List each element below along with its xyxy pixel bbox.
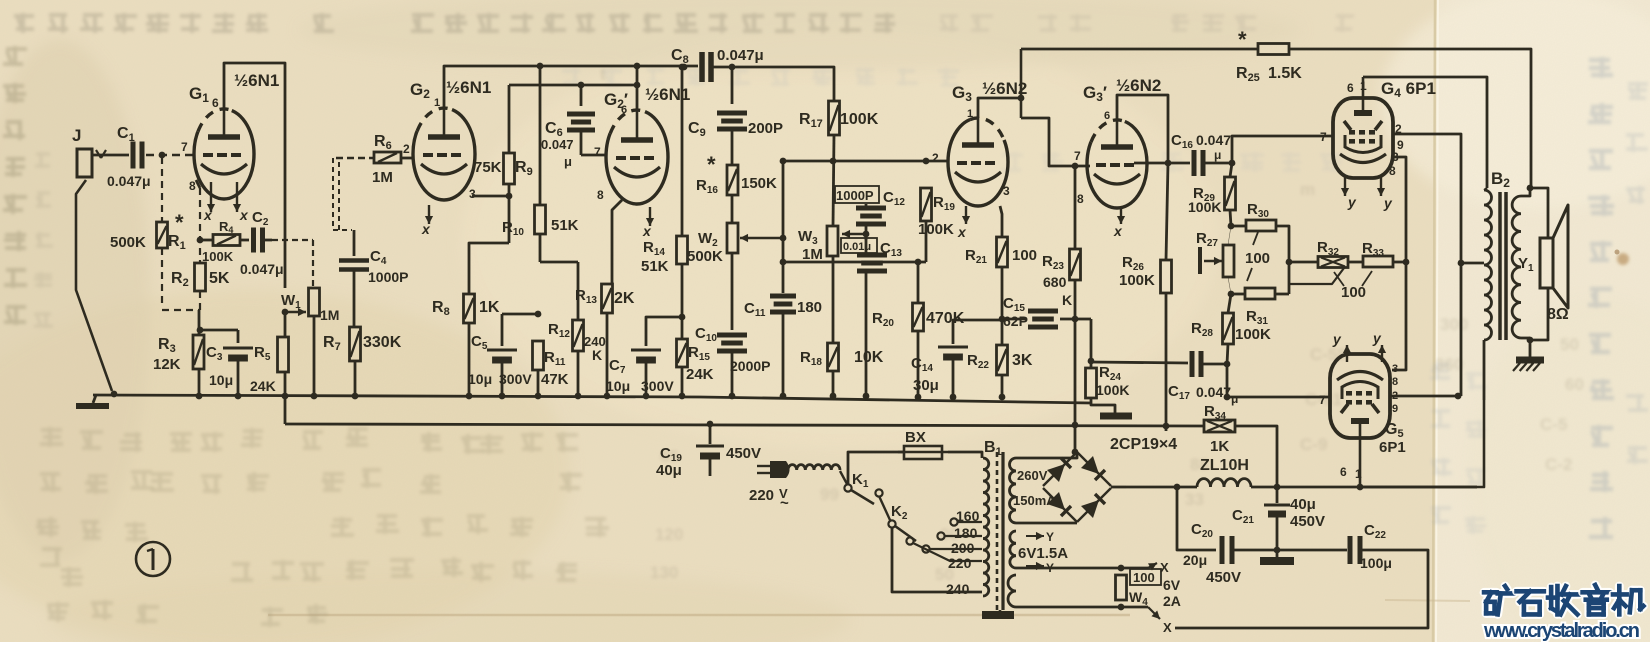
svg-text:1M: 1M: [802, 246, 823, 263]
svg-text:9: 9: [1392, 403, 1398, 415]
svg-text:μ: μ: [1214, 148, 1221, 162]
dashed shielded pair down from R6: [332, 158, 334, 230]
svg-text:100K: 100K: [1188, 199, 1221, 215]
svg-text:240: 240: [946, 581, 970, 597]
svg-text:180: 180: [797, 299, 822, 316]
R32 wiper: [1289, 268, 1344, 284]
transformer B1 primary winding: [983, 458, 989, 596]
wire B+ bus: [285, 424, 1204, 426]
resistor R22: [997, 345, 1008, 375]
heater lead G3p: [1120, 206, 1122, 224]
wire G1 cathode to R2 column (dashed shield): [196, 180, 200, 188]
svg-text:1: 1: [1360, 79, 1367, 93]
wire G2 plate to rail A: [444, 66, 698, 108]
svg-text:450V: 450V: [726, 445, 761, 462]
wire W1 body down to ground bus: [313, 316, 316, 395]
wire R9 column to R8: [469, 243, 509, 294]
svg-text:100: 100: [1012, 247, 1037, 264]
heater lead G2: [428, 205, 430, 224]
svg-text:8: 8: [1392, 376, 1398, 388]
wire G4 cathode column: [1392, 157, 1406, 370]
speaker Y1: [1540, 238, 1553, 288]
svg-text:330K: 330K: [363, 334, 402, 351]
potentiometer R27: [1223, 245, 1234, 277]
resistor R15: [677, 339, 688, 367]
svg-text:6P1: 6P1: [1379, 439, 1406, 456]
svg-text:7: 7: [1320, 130, 1327, 144]
wire jack ground drop: [76, 180, 112, 391]
svg-text:*: *: [1238, 27, 1247, 52]
wire G1 plate to B+ column: [224, 63, 285, 288]
svg-text:x: x: [203, 207, 213, 223]
tube G2p triode: [606, 110, 668, 204]
svg-text:0.047μ: 0.047μ: [717, 47, 764, 64]
svg-text:100: 100: [1133, 570, 1155, 585]
svg-text:62P: 62P: [1003, 313, 1028, 329]
transformer B2 primary winding: [1484, 190, 1492, 340]
svg-text:y: y: [1372, 330, 1382, 346]
svg-text:160: 160: [956, 508, 980, 524]
svg-text:10μ: 10μ: [468, 371, 492, 387]
resistor R25: [1258, 44, 1289, 55]
svg-text:6: 6: [212, 96, 219, 110]
svg-text:130: 130: [650, 563, 678, 582]
svg-text:G4 6P1: G4 6P1: [1381, 79, 1436, 100]
svg-text:150K: 150K: [741, 175, 777, 192]
capacitor C21: [1276, 487, 1279, 503]
wire rail A right of C8: [711, 67, 834, 101]
resistor R19: [921, 188, 932, 221]
resistor R14 on C8-left column: [679, 64, 686, 71]
resistor R30: [1231, 225, 1246, 228]
svg-text:www.crystalradio.cn: www.crystalradio.cn: [1483, 620, 1640, 642]
resistor R32: [1289, 261, 1318, 264]
svg-text:1K: 1K: [1210, 438, 1229, 455]
svg-text:680: 680: [1043, 274, 1067, 290]
svg-text:8: 8: [1389, 164, 1396, 178]
wiper feed column x783: [780, 158, 787, 165]
svg-text:x: x: [421, 221, 431, 237]
switch K2: [879, 496, 890, 520]
choke ZL10H: [1126, 486, 1197, 489]
capacitor C12: [865, 204, 868, 208]
svg-text:120: 120: [655, 525, 683, 544]
diode D1: [1047, 464, 1065, 482]
svg-text:BX: BX: [905, 429, 926, 446]
heater leads G1: [210, 182, 212, 212]
resistor R18: [828, 343, 839, 371]
tube G4 pentode: [1333, 98, 1393, 178]
capacitor C1: [131, 142, 136, 169]
svg-text:1000P: 1000P: [836, 188, 874, 203]
svg-text:24K: 24K: [686, 366, 714, 383]
svg-text:6: 6: [1104, 110, 1110, 122]
svg-text:½6N1: ½6N1: [234, 71, 279, 90]
resistor R6: [336, 157, 374, 159]
svg-text:1K: 1K: [479, 299, 500, 316]
svg-text:33: 33: [1185, 490, 1204, 509]
svg-text:100K: 100K: [202, 249, 234, 264]
tube G3p triode: [1087, 120, 1147, 208]
svg-text:7: 7: [594, 145, 601, 159]
input jack J: [77, 149, 92, 177]
svg-text:3: 3: [1003, 184, 1010, 198]
svg-text:24K: 24K: [250, 378, 276, 394]
wire G2p plate riser: [636, 85, 639, 110]
svg-text:100K: 100K: [1119, 272, 1155, 289]
svg-text:300V: 300V: [641, 378, 674, 394]
svg-text:0.047: 0.047: [541, 137, 574, 152]
wire G3 cathode column: [1000, 206, 1002, 237]
svg-text:x: x: [239, 207, 249, 223]
paper noise: [0, 0, 1, 1]
svg-text:~: ~: [780, 495, 789, 512]
capacitor C16: [1134, 162, 1190, 165]
svg-text:300: 300: [1440, 315, 1468, 334]
transformer B2 core: [1498, 192, 1502, 340]
wire B+ bus right of R34: [1235, 426, 1277, 487]
svg-text:2: 2: [932, 151, 939, 165]
svg-text:500K: 500K: [687, 248, 723, 265]
hum pot W4: [1118, 565, 1125, 572]
diode D2: [1081, 456, 1099, 474]
svg-text:2CP19×4: 2CP19×4: [1110, 436, 1177, 453]
resistor R33: [1348, 261, 1363, 264]
svg-text:8: 8: [189, 179, 196, 193]
svg-text:6V1.5A: 6V1.5A: [1018, 545, 1068, 562]
wire G3p plate riser to C16 row: [1117, 95, 1168, 163]
capacitor C3: [237, 330, 240, 343]
resistor R24: [1075, 318, 1091, 321]
wire fuse to B1: [948, 452, 982, 458]
resistor R8: [464, 294, 475, 323]
svg-text:40μ: 40μ: [656, 462, 682, 479]
wire C16 node to G4 grid: [1232, 136, 1334, 163]
svg-text:½6N1: ½6N1: [645, 85, 690, 104]
primary tap circles: [950, 518, 957, 525]
svg-text:10μ: 10μ: [209, 372, 233, 388]
wire G5 screen row: [1390, 395, 1461, 398]
svg-text:20μ: 20μ: [1183, 552, 1207, 568]
capacitor C17: [1091, 362, 1188, 363]
tube G2 triode: [413, 108, 475, 200]
svg-text:470K: 470K: [926, 310, 965, 327]
wire C1 to G1 grid (shielded, dashed): [146, 154, 194, 156]
tube G5 pentode: [1330, 354, 1390, 438]
svg-text:60: 60: [1565, 375, 1584, 394]
resistor R13: [602, 284, 613, 313]
ground symbol main: [93, 395, 96, 403]
bleed-through ghost text left column: [3, 46, 27, 66]
wire bridge output to choke: [1111, 486, 1126, 489]
svg-text:μ: μ: [564, 154, 572, 169]
wire G4 screen to right column: [1392, 134, 1461, 396]
svg-text:K: K: [592, 347, 602, 363]
potentiometer W3: [827, 226, 838, 256]
svg-text:7: 7: [181, 140, 188, 154]
svg-text:2: 2: [403, 142, 410, 156]
capacitor C19: [707, 421, 714, 428]
resistor R17: [829, 101, 840, 135]
svg-text:5K: 5K: [209, 270, 230, 287]
svg-text:51K: 51K: [641, 258, 669, 275]
svg-text:y: y: [1383, 195, 1393, 211]
ground symbol speaker: [1516, 357, 1544, 364]
svg-text:C-2: C-2: [1545, 455, 1572, 474]
wire G3 plate to top rail: [978, 98, 1021, 118]
wire B2 center tap to screens: [1461, 262, 1484, 265]
svg-text:*: *: [707, 152, 716, 177]
capacitor C15: [1002, 318, 1026, 321]
svg-text:X: X: [1163, 620, 1172, 635]
svg-text:1000P: 1000P: [368, 269, 408, 285]
svg-text:3K: 3K: [1012, 352, 1033, 369]
resistor R29: [1230, 163, 1232, 177]
capacitor C22: [1348, 536, 1353, 564]
capacitor C14: [953, 320, 1002, 344]
svg-text:12K: 12K: [153, 356, 181, 373]
dashed shield bottom link: [162, 309, 200, 311]
tap wires: [957, 521, 982, 523]
wire W1/R5 column to buses: [284, 312, 287, 337]
svg-text:3: 3: [469, 187, 476, 201]
potentiometer W1: [309, 288, 320, 316]
transformer B2 secondary winding: [1512, 196, 1521, 338]
svg-text:6: 6: [621, 104, 627, 116]
svg-text:180: 180: [954, 525, 978, 541]
resistor R11: [533, 341, 544, 370]
boxed label 0.01u: [841, 238, 877, 253]
wire G5 grid row: [1227, 396, 1329, 399]
svg-text:100μ: 100μ: [1360, 555, 1392, 571]
svg-text:7: 7: [1074, 149, 1081, 163]
wire heater row bottom: [1016, 606, 1148, 609]
svg-text:51K: 51K: [551, 217, 579, 234]
svg-text:200P: 200P: [748, 120, 783, 137]
svg-text:47K: 47K: [541, 371, 569, 388]
capacitor C4: [353, 230, 356, 256]
svg-text:2000P: 2000P: [730, 358, 770, 374]
svg-text:½6N2: ½6N2: [1116, 76, 1161, 95]
svg-text:0.047μ: 0.047μ: [240, 261, 284, 277]
wire R10 bottom to R12 column: [540, 261, 578, 264]
capacitor C6: [578, 82, 585, 89]
svg-text:0.047μ: 0.047μ: [107, 173, 151, 189]
svg-text:30μ: 30μ: [913, 377, 939, 394]
diode D3: [1047, 492, 1065, 510]
capacitor C11: [770, 294, 796, 299]
wire G2 cathode to R9 column: [472, 195, 509, 198]
resistor R12: [577, 262, 580, 320]
svg-text:C-9: C-9: [1300, 435, 1327, 454]
svg-text:1: 1: [434, 97, 440, 109]
wire C2 to W1 dashed: [272, 239, 313, 241]
transformer B1 6V secondary: [1010, 531, 1016, 568]
svg-text:10μ: 10μ: [606, 378, 630, 394]
transformer B1 HV secondary: [1010, 458, 1017, 523]
resistor R3: [198, 310, 201, 335]
svg-text:40μ: 40μ: [1290, 496, 1316, 513]
resistor R31: [1228, 291, 1235, 298]
svg-text:6: 6: [1340, 465, 1347, 479]
svg-text:220: 220: [749, 487, 774, 504]
node R32 junction: [1286, 259, 1293, 266]
capacitor C9 / resistor R16 / pot W2 column: [731, 67, 734, 104]
wire top feedback rail: [1021, 48, 1258, 51]
potentiometer W2: [727, 223, 738, 253]
resistor R10: [537, 63, 544, 70]
diode D4: [1081, 500, 1099, 518]
svg-text:75K: 75K: [474, 159, 502, 176]
svg-text:300V: 300V: [499, 371, 532, 387]
svg-text:8Ω: 8Ω: [1547, 306, 1569, 323]
wire B2 secondary to speaker: [1521, 188, 1530, 196]
resistor R23 column: [1074, 166, 1077, 249]
svg-text:450V: 450V: [1206, 569, 1241, 586]
svg-text:1M: 1M: [320, 307, 339, 323]
paper stain spot: [1617, 253, 1629, 265]
svg-text:1: 1: [1355, 467, 1362, 481]
capacitor C7: [646, 317, 682, 346]
svg-text:100K: 100K: [1096, 382, 1129, 398]
svg-text:2K: 2K: [614, 290, 635, 307]
ground bar R24: [1100, 413, 1132, 420]
tube G1 triode: [194, 109, 254, 199]
svg-text:50: 50: [1560, 335, 1579, 354]
capacitor C10: [717, 333, 747, 338]
switch K1: [840, 471, 847, 484]
wire heater row top: [1016, 567, 1148, 570]
mains plug: [757, 465, 770, 467]
svg-text:x: x: [1113, 223, 1123, 239]
heater arrows G5: [1346, 345, 1348, 362]
svg-text:1M: 1M: [372, 169, 393, 186]
svg-text:1.5K: 1.5K: [1268, 65, 1302, 82]
svg-text:100: 100: [1245, 250, 1270, 267]
node dot R2 column top: [197, 237, 204, 244]
svg-text:x: x: [642, 223, 652, 239]
resistor R1: [159, 152, 166, 159]
svg-text:m: m: [1300, 180, 1315, 199]
svg-text:450V: 450V: [1290, 513, 1325, 530]
bleed-through ghost text right column: [1589, 57, 1613, 78]
svg-text:99: 99: [820, 485, 839, 504]
paper crease: [1433, 0, 1435, 642]
svg-text:G3′: G3′: [1083, 83, 1107, 104]
svg-text:J: J: [72, 126, 81, 145]
resistor R16: [727, 165, 738, 195]
wire ground bus: [93, 395, 1091, 403]
watermark Chinese characters: [1484, 586, 1513, 614]
link rail A to rail B at x637: [634, 63, 641, 70]
svg-text:360: 360: [1435, 355, 1463, 374]
capacitor C20: [1220, 536, 1225, 564]
resistor R20: [917, 262, 920, 303]
fuse BX: [904, 446, 942, 459]
svg-text:100K: 100K: [918, 221, 954, 238]
wire G4 plate rail to B2: [1363, 77, 1487, 188]
svg-text:6V: 6V: [1163, 577, 1181, 593]
transformer B1 core: [996, 452, 999, 610]
boxed label 1000P: [835, 186, 879, 203]
capacitor C8: [699, 52, 705, 82]
resistor R34: [1204, 420, 1235, 432]
rectifier bridge 2CP19x4: [1016, 452, 1077, 458]
resistor R4: [200, 239, 213, 242]
wire R28 node down to G5 grid row: [1226, 364, 1229, 397]
svg-text:7: 7: [1319, 393, 1326, 407]
figure number circled 1: [136, 542, 170, 576]
ground bar B1: [999, 610, 1002, 613]
svg-text:μ: μ: [1231, 392, 1238, 406]
svg-text:100K: 100K: [840, 111, 879, 128]
svg-text:10K: 10K: [854, 349, 884, 366]
svg-text:y: y: [1332, 331, 1342, 347]
svg-text:8: 8: [1077, 192, 1084, 206]
bleed-through ghost text top row: [14, 13, 34, 33]
rail B wire: [509, 84, 637, 87]
svg-text:100: 100: [1341, 284, 1366, 301]
svg-text:0.047: 0.047: [1196, 132, 1231, 148]
svg-text:500K: 500K: [110, 234, 146, 251]
resistor R28: [1228, 294, 1231, 313]
capacitor C5: [502, 313, 538, 316]
wire K1 to fuse: [848, 452, 904, 485]
resistor R26: [1165, 160, 1172, 167]
heater lead G2p: [649, 207, 651, 226]
svg-text:y: y: [1347, 194, 1357, 210]
wire mid row y262: [783, 261, 926, 264]
resistor R21: [997, 237, 1008, 267]
capacitor C2: [251, 228, 256, 253]
wire C20 row: [1177, 487, 1216, 550]
heater arrows G4: [1344, 176, 1346, 196]
svg-text:100K: 100K: [1235, 326, 1271, 343]
resistor R5: [278, 337, 289, 372]
wire G3 plate to G3p grid coupling: [1021, 118, 1090, 166]
transformer B1 bottom secondary: [1008, 575, 1016, 607]
svg-text:Y: Y: [1046, 530, 1054, 544]
svg-text:2A: 2A: [1163, 593, 1181, 609]
resistor R7: [350, 327, 361, 361]
svg-text:3: 3: [1392, 363, 1398, 375]
svg-text:8: 8: [597, 188, 604, 202]
bleed-through ghost rule line: [268, 614, 1130, 616]
capacitor C13: [865, 234, 868, 255]
svg-text:1: 1: [967, 108, 973, 120]
svg-text:6: 6: [1347, 81, 1354, 95]
resistor R2: [195, 263, 206, 291]
svg-text:C-5: C-5: [1540, 415, 1567, 434]
svg-text:220: 220: [948, 555, 972, 571]
svg-text:260V: 260V: [1017, 468, 1048, 483]
svg-text:x: x: [957, 224, 967, 240]
svg-text:ZL10H: ZL10H: [1200, 457, 1249, 474]
heater lead G3: [965, 206, 967, 224]
ground bar C21: [1260, 557, 1294, 565]
wire G2p cathode to R13: [612, 200, 622, 284]
svg-text:½6N1: ½6N1: [446, 78, 491, 97]
mains cord squiggle: [788, 465, 840, 470]
wire grid row G3: [783, 160, 948, 163]
svg-text:K: K: [1062, 292, 1072, 308]
tube G3 triode: [948, 118, 1008, 206]
wire K2 pivot to 240 tap: [892, 528, 982, 592]
bleed-through ghost text bottom-left block: [40, 427, 63, 447]
svg-text:200: 200: [951, 540, 975, 556]
resistor R9 on rail B column: [508, 85, 511, 153]
wire B2 primary bottom to G5 plate: [1483, 340, 1486, 400]
